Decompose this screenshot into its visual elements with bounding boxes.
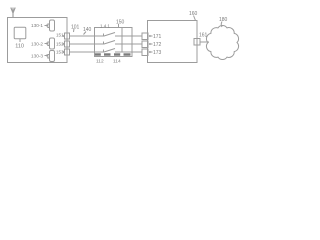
svg-text:130-2: 130-2 bbox=[31, 42, 43, 47]
port square 173 bbox=[142, 49, 148, 56]
port square 152 bbox=[65, 41, 70, 47]
svg-text:130-3: 130-3 bbox=[31, 54, 43, 59]
svg-text:172: 172 bbox=[153, 42, 162, 48]
svg-text:110: 110 bbox=[15, 44, 24, 50]
svg-text:153: 153 bbox=[56, 50, 64, 55]
external port on right box bbox=[194, 39, 200, 46]
svg-text:152: 152 bbox=[56, 42, 64, 47]
svg-text:112: 112 bbox=[96, 59, 104, 65]
port square 171 bbox=[142, 33, 148, 40]
svg-text:151: 151 bbox=[56, 33, 64, 38]
svg-text:114: 114 bbox=[113, 59, 121, 65]
wire row1 middle-to-right bbox=[132, 35, 142, 37]
antenna bbox=[11, 8, 15, 18]
svg-text:130-1: 130-1 bbox=[31, 23, 43, 28]
leader of label 160 bbox=[194, 16, 196, 21]
wire row3 middle-to-right bbox=[132, 51, 142, 53]
handset icon 130-2 bbox=[48, 38, 55, 49]
port square 153 bbox=[65, 49, 70, 55]
svg-text:180: 180 bbox=[219, 17, 228, 23]
wire row3 left-to-middle bbox=[70, 51, 95, 53]
arrow from 173 label bbox=[149, 51, 153, 52]
port square 151 on left box edge bbox=[65, 33, 70, 39]
right box (main unit) bbox=[148, 21, 198, 63]
switch 3 bbox=[95, 49, 133, 53]
wire row2 middle-to-right bbox=[132, 43, 142, 45]
arrow to port 151 bbox=[62, 35, 64, 36]
leader of cloud label bbox=[220, 22, 223, 28]
leader of label 140 bbox=[84, 32, 87, 35]
middle box (switch unit) bbox=[95, 28, 133, 57]
svg-text:150: 150 bbox=[116, 20, 125, 26]
arrow to port 153 bbox=[62, 51, 64, 52]
svg-text:141: 141 bbox=[100, 24, 111, 29]
svg-text:171: 171 bbox=[153, 34, 162, 40]
handset icon 130-3 bbox=[48, 51, 55, 62]
wire row1 left-to-middle bbox=[70, 35, 95, 37]
switch 1 bbox=[95, 33, 133, 37]
arrow from 172 label bbox=[149, 43, 153, 44]
svg-text:140: 140 bbox=[83, 27, 92, 33]
arrow to icon 130-2 bbox=[45, 43, 48, 44]
arrow to icon 130-3 bbox=[45, 55, 48, 56]
svg-text:173: 173 bbox=[153, 50, 162, 56]
svg-text:161: 161 bbox=[199, 33, 208, 39]
arrow to icon 130-1 bbox=[45, 25, 48, 26]
middle box bottom text blobs bbox=[95, 53, 131, 55]
wire to cloud bbox=[200, 41, 209, 43]
stem of 111 label bbox=[19, 39, 21, 43]
inner square 111 bbox=[14, 27, 26, 39]
leader of label 101 bbox=[73, 29, 76, 33]
leader of label 150 bbox=[118, 24, 120, 28]
port square 172 bbox=[142, 41, 148, 48]
left box (base unit) bbox=[8, 18, 68, 63]
handset icon 130-1 bbox=[48, 20, 55, 31]
svg-text:101: 101 bbox=[71, 25, 80, 31]
wire row2 left-to-middle bbox=[70, 43, 95, 45]
svg-text:160: 160 bbox=[189, 11, 198, 17]
arrow from 171 label bbox=[149, 35, 153, 36]
cloud (network) bbox=[206, 25, 238, 59]
switch 2 bbox=[95, 41, 133, 45]
control line in middle box bbox=[121, 28, 123, 53]
arrow to port 152 bbox=[62, 43, 64, 44]
